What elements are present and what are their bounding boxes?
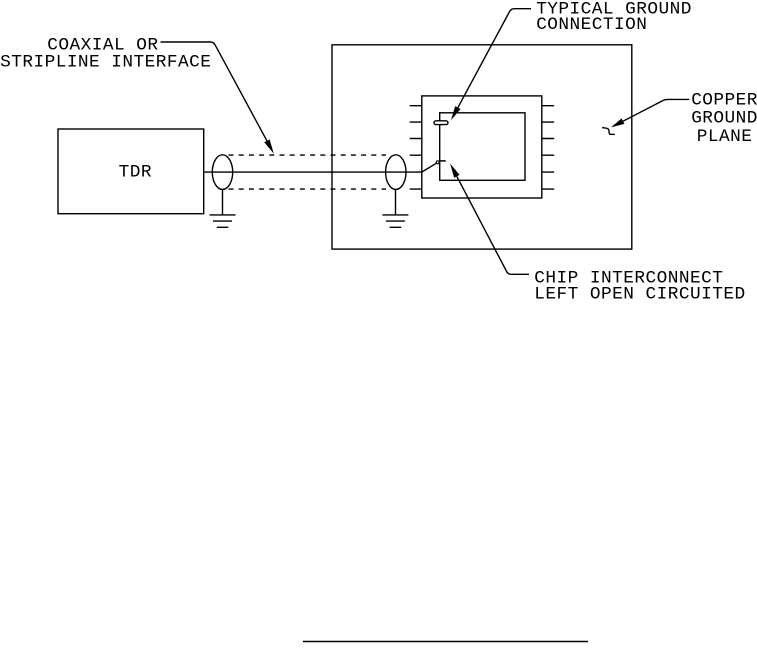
chip interconnect stub on die xyxy=(440,160,446,162)
chip package U1 outline xyxy=(422,96,542,198)
arrowhead: chip interconnect leader xyxy=(450,164,460,178)
wire: J1 ground stem xyxy=(222,189,224,215)
arrowhead: coaxial leader xyxy=(264,139,274,153)
leader: coaxial/stripline label xyxy=(161,42,267,141)
chip die xyxy=(440,113,525,181)
arrowhead: copper plane leader xyxy=(611,118,624,127)
wire: open bond wire from package pin to die xyxy=(422,163,437,172)
ground (J2) xyxy=(382,215,408,227)
TDR box xyxy=(58,129,204,214)
svg-text:GROUND: GROUND xyxy=(691,109,757,129)
svg-text:COPPER: COPPER xyxy=(691,90,757,110)
arrowhead: typical ground leader xyxy=(451,106,461,120)
connector J1 (coax launch at TDR) xyxy=(212,155,232,190)
wire: coax center conductor TDR to package xyxy=(204,171,422,173)
ground (J1) xyxy=(210,215,236,227)
copper plane texture squiggle xyxy=(602,128,615,135)
bottom rule xyxy=(303,641,588,643)
leader: chip interconnect label xyxy=(457,176,529,274)
svg-text:LEFT OPEN CIRCUITED: LEFT OPEN CIRCUITED xyxy=(534,285,745,305)
U1 left pins xyxy=(410,106,422,189)
wire: J2 ground stem xyxy=(395,189,397,215)
copper ground plane outline xyxy=(332,45,632,249)
U1 right pins xyxy=(542,106,554,189)
connector J2 (coax launch at fixture) xyxy=(386,155,406,190)
wire: coax shield bottom (dashed) xyxy=(229,188,387,190)
svg-text:CONNECTION: CONNECTION xyxy=(536,15,647,35)
node: open circuit point xyxy=(436,161,439,164)
leader: typical ground connection label xyxy=(458,9,531,108)
svg-text:PLANE: PLANE xyxy=(697,127,753,147)
wire: coax shield top (dashed) xyxy=(229,154,387,156)
typical ground connection pad (capsule across die edge) xyxy=(434,121,448,125)
leader: copper ground plane label xyxy=(623,99,689,121)
svg-text:STRIPLINE INTERFACE: STRIPLINE INTERFACE xyxy=(0,53,211,73)
svg-text:TDR: TDR xyxy=(119,163,152,183)
